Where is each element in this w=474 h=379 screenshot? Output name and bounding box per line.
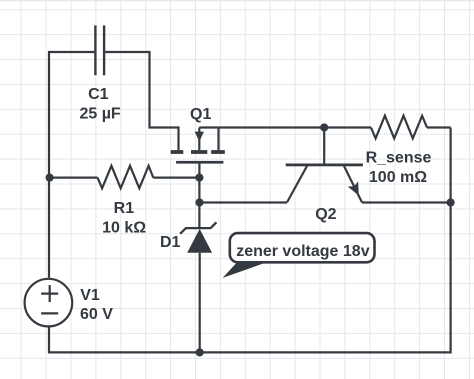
zener diode D1 cathode bar xyxy=(180,222,216,234)
node: D1 anode / ground rail junction xyxy=(196,348,204,356)
voltage source V1 xyxy=(25,279,73,327)
svg-text:60 V: 60 V xyxy=(80,306,113,323)
svg-text:V1: V1 xyxy=(80,287,100,304)
svg-text:zener voltage 18v: zener voltage 18v xyxy=(236,243,370,260)
node: Q2 base / top rail junction xyxy=(320,123,328,131)
svg-text:R_sense: R_sense xyxy=(366,150,432,167)
wire: D1 anode to ground xyxy=(199,253,201,353)
wire: left rail to R1 xyxy=(49,177,98,179)
svg-text:C1: C1 xyxy=(88,86,109,103)
svg-text:Q2: Q2 xyxy=(315,206,336,223)
wire: R1 to Q1 gate node xyxy=(153,177,199,179)
wire: Q2 emitter to right rail xyxy=(362,201,451,203)
svg-text:25 µF: 25 µF xyxy=(79,105,120,122)
transistor Q1 body stem xyxy=(198,128,200,151)
node: R1 / Q1 gate junction xyxy=(195,174,203,182)
wire: Q1 top rail to R_sense xyxy=(199,126,371,128)
wire: V1 bottom to ground rail xyxy=(49,128,451,353)
callout box xyxy=(230,233,375,262)
svg-text:Q1: Q1 xyxy=(190,106,211,123)
capacitor C1 xyxy=(95,25,104,75)
transistor Q2 base bar xyxy=(286,164,363,167)
transistor Q1 gate bar xyxy=(176,161,223,164)
transistor Q1 drain stem xyxy=(217,128,219,151)
wire: top-left from C1 to left rail xyxy=(49,52,94,278)
svg-text:10 kΩ: 10 kΩ xyxy=(102,219,146,236)
wire: zener node to Q2 collector xyxy=(199,201,287,203)
svg-text:R1: R1 xyxy=(114,200,135,217)
transistor Q2 collector leg xyxy=(287,166,307,202)
zener diode D1 triangle xyxy=(187,229,212,253)
callout tail xyxy=(223,261,271,278)
resistor R1 xyxy=(98,166,154,189)
transistor Q1 body arrow xyxy=(195,132,204,142)
transistor Q1 gate stem / zener top wire xyxy=(198,164,200,228)
node: Q2 emitter / right rail junction xyxy=(447,198,455,206)
svg-text:100 mΩ: 100 mΩ xyxy=(369,169,427,186)
node: R1 / left rail junction xyxy=(46,174,54,182)
transistor Q2 emitter leg xyxy=(344,166,362,202)
svg-text:D1: D1 xyxy=(160,234,181,251)
wire: C1 right plate to Q1 source xyxy=(105,52,178,150)
wire: R_sense to right rail xyxy=(427,126,451,128)
transistor Q2 emitter arrowhead xyxy=(348,181,364,198)
node: zener / Q2 junction xyxy=(195,198,203,206)
transistor Q2 base stem xyxy=(323,128,325,164)
resistor R_sense xyxy=(371,116,427,139)
transistor Q1 contact bars xyxy=(46,123,455,356)
